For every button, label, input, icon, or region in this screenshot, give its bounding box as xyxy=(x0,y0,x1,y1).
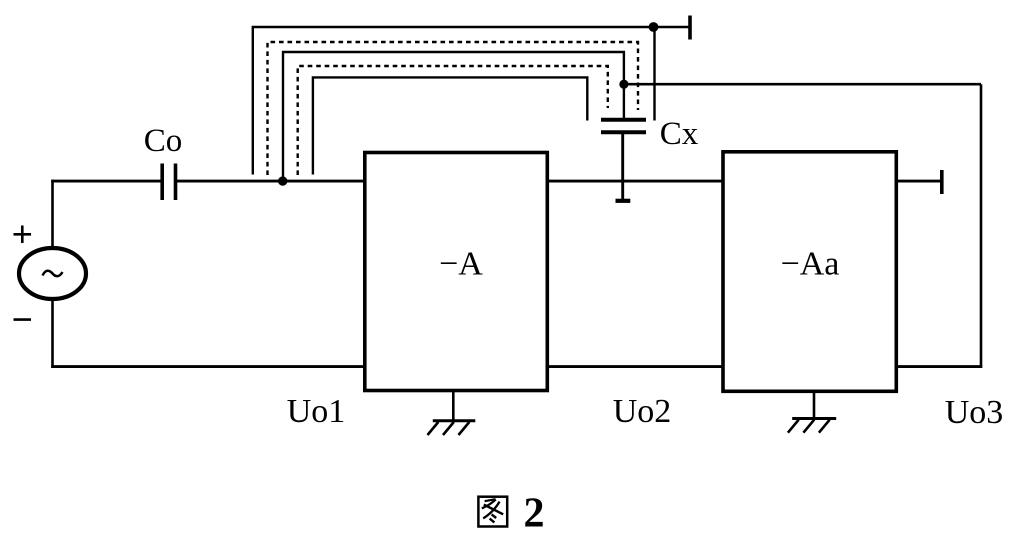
capacitor Co xyxy=(162,164,175,201)
terminal bar Uo3 output xyxy=(940,170,944,194)
wire bottom bus left xyxy=(51,365,366,368)
svg-text:−A: −A xyxy=(439,246,483,283)
shield wire 2 dotted xyxy=(268,42,639,175)
wire feedback right vertical xyxy=(980,84,983,366)
amplifier block U2 -Aa xyxy=(723,152,896,391)
wire Cx bottom xyxy=(621,134,624,200)
shield wire 5 innermost solid xyxy=(313,77,587,174)
svg-text:2: 2 xyxy=(524,491,545,537)
wire source bottom xyxy=(51,299,54,368)
shield wire 3 middle solid xyxy=(283,52,624,181)
minus polarity label xyxy=(14,318,32,321)
wire Aa output xyxy=(896,180,941,183)
ground below amplifier A xyxy=(428,391,476,436)
wire Co to amplifier A input xyxy=(177,180,366,183)
svg-text:Uo2: Uo2 xyxy=(613,393,672,430)
terminal bar below Cx wire xyxy=(616,199,631,203)
wire bottom bus right xyxy=(896,365,982,368)
AC source V1 xyxy=(19,248,86,299)
terminal bar top right xyxy=(688,16,692,40)
amplifier block U1 -A xyxy=(365,153,548,391)
wire feedback top horizontal xyxy=(624,83,981,86)
svg-text:Uo1: Uo1 xyxy=(287,393,346,430)
node junction dot on input wire xyxy=(278,176,287,185)
svg-text:Co: Co xyxy=(144,123,183,159)
svg-text:Cx: Cx xyxy=(660,116,699,152)
svg-text:−Aa: −Aa xyxy=(781,246,840,283)
shield wire 4 dotted xyxy=(298,66,608,175)
svg-text:Uo3: Uo3 xyxy=(945,394,1004,431)
capacitor Cx xyxy=(601,120,646,133)
wire A output to Aa input xyxy=(547,180,723,183)
node dot on shield 1 top xyxy=(649,22,659,32)
caption figure 2 chinese character tu xyxy=(478,497,507,527)
node dot feedback tap xyxy=(619,80,628,89)
wire source to Co xyxy=(51,180,161,183)
wire bottom bus middle xyxy=(547,365,723,368)
ground below amplifier Aa xyxy=(788,391,836,432)
shield wire 1 outermost solid xyxy=(253,27,690,175)
wire source top xyxy=(51,180,54,248)
plus polarity label xyxy=(14,226,32,244)
